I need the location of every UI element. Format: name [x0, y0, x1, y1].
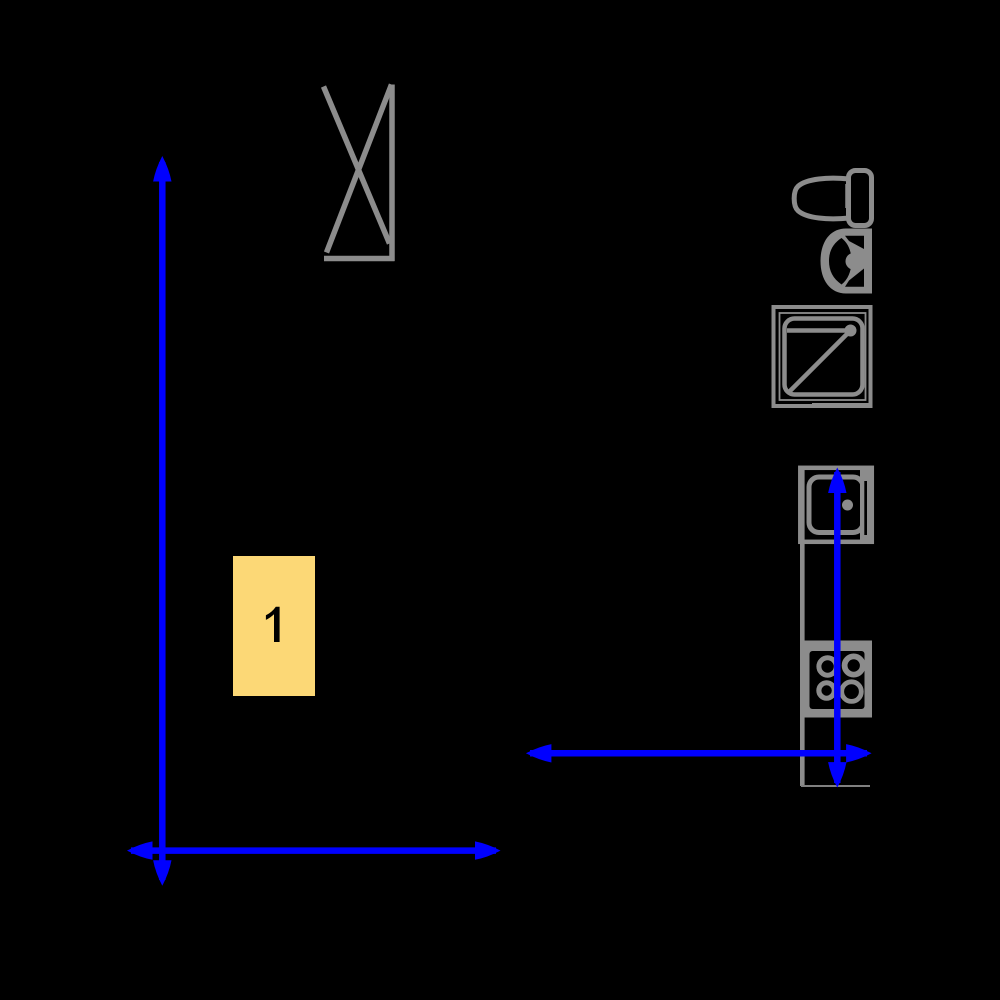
stove inner panel [810, 651, 865, 709]
label 1 [266, 607, 280, 642]
arrowhead down [153, 860, 171, 886]
toilet bowl rim line [845, 184, 848, 208]
shower tray middle [780, 313, 866, 400]
washbasin drain [846, 253, 863, 270]
kitchen sink basin [809, 477, 863, 533]
shower arm line [787, 328, 848, 333]
arrowhead up [153, 156, 171, 182]
burner bottom-left [819, 683, 835, 699]
kitchen faucet [842, 500, 853, 511]
shower head circle [845, 325, 857, 337]
arrowhead left [127, 841, 153, 859]
dimension line right vertical [834, 472, 841, 783]
shower diagonal [789, 334, 848, 393]
shower tray inner [785, 319, 863, 395]
burner bottom-right [842, 682, 862, 702]
wire: window diagonal B [327, 85, 392, 253]
kitchen sink right ledge [860, 470, 870, 540]
washbasin body [821, 229, 873, 294]
shower tray outer [774, 307, 871, 406]
counter left edge [800, 468, 805, 787]
washbasin cutout top [845, 236, 864, 249]
toilet tank [849, 171, 872, 226]
kitchen sink outer [800, 468, 872, 542]
arrowhead down [828, 762, 846, 788]
arrowhead right [475, 841, 501, 859]
counter bottom edge [801, 785, 870, 787]
arrowhead left [526, 744, 552, 762]
window W1 (top, X symbol) [324, 85, 395, 262]
arrowhead up [828, 468, 846, 494]
burner top-right [845, 656, 863, 674]
wire: window bottom sill [324, 256, 395, 262]
wire: window right jamb [389, 85, 395, 262]
washbasin bowl [829, 238, 852, 285]
arrowhead right [846, 744, 872, 762]
wire: window diagonal A [324, 87, 390, 244]
burner top-left [819, 658, 836, 675]
room 1 (yellow) [233, 556, 315, 696]
dimension line bottom horizontal [131, 847, 496, 854]
stove base [805, 641, 873, 718]
dimension line left vertical [159, 162, 166, 880]
washbasin cutout bottom [845, 269, 864, 287]
toilet WC bowl [794, 178, 849, 219]
kitchen sink ledge slot [864, 481, 867, 535]
wall bar below shower [812, 403, 871, 408]
dimension line right horizontal [530, 750, 867, 757]
